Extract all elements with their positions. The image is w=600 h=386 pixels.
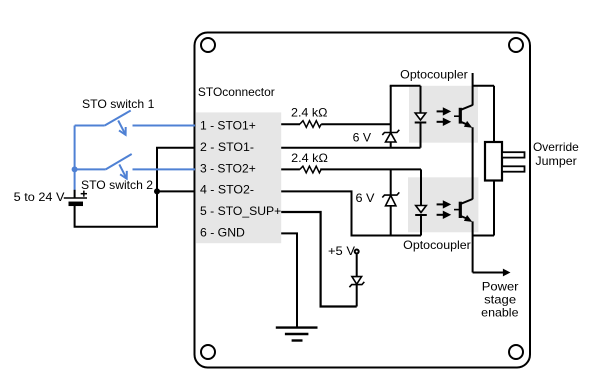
wire pin6 to ground — [281, 233, 297, 327]
svg-text:+5 V: +5 V — [328, 244, 355, 258]
battery BT1 plus sign — [81, 191, 87, 197]
wire junction to jumper rail top — [473, 85, 494, 87]
zener D2 triangle — [386, 133, 396, 142]
+5V terminal — [355, 250, 359, 254]
wire battery positive rail (blue) — [74, 126, 76, 191]
switch S2 actuation arrow — [119, 164, 127, 178]
svg-text:1 - STO1+: 1 - STO1+ — [200, 119, 256, 133]
svg-text:STO switch 1: STO switch 1 — [82, 97, 155, 111]
jumper pin lower — [502, 166, 525, 171]
LED D1 triangle — [415, 113, 426, 120]
svg-text:Jumper: Jumper — [535, 154, 576, 168]
wire resistor R2 to LED2 corner — [320, 168, 421, 170]
zener D4 cathode bar with ticks — [382, 192, 399, 197]
node blue junction — [72, 166, 78, 172]
LED D1 cathode bar — [415, 122, 427, 124]
resistor R1 — [300, 121, 321, 128]
svg-text:6 V: 6 V — [356, 191, 375, 205]
switch S1 left wire — [75, 125, 105, 127]
svg-text:STO switch 2: STO switch 2 — [81, 178, 153, 192]
transistor Q2 base lead — [454, 209, 460, 211]
wire top rail to LED1 — [390, 85, 421, 87]
switch S1 actuation arrow — [118, 121, 126, 135]
svg-text:3 - STO2+: 3 - STO2+ — [200, 161, 256, 175]
switch S2 blade — [106, 154, 132, 169]
diode D5 bottom lead — [356, 285, 358, 307]
LED D3 cathode bar — [415, 214, 427, 216]
svg-text:6 - GND: 6 - GND — [200, 226, 245, 240]
svg-text:Power: Power — [482, 279, 519, 293]
LED D1 cathode lead — [420, 123, 422, 148]
transistor Q2 emitter with arrow — [461, 215, 473, 222]
switch S2 right wire to pin 3 — [133, 168, 196, 170]
LED D3 cathode lead — [420, 215, 422, 236]
LED D3 anode lead — [420, 169, 422, 205]
svg-text:5 to 24 V: 5 to 24 V — [14, 190, 65, 204]
wire pin3 to resistor R2 — [281, 168, 300, 170]
optocoupler U1 body — [409, 86, 478, 143]
wire pin1 to resistor R1 — [281, 123, 300, 125]
mounting hole top-right — [509, 38, 523, 52]
zener D4 triangle — [386, 195, 396, 205]
svg-text:6 V: 6 V — [353, 131, 371, 145]
svg-text:Override: Override — [533, 140, 579, 154]
transistor Q1 collector — [461, 105, 473, 110]
mounting hole bottom-left — [201, 345, 215, 359]
jumper body — [485, 142, 502, 181]
svg-text:2 - STO1-: 2 - STO1- — [200, 140, 254, 154]
wire pin4 return line — [281, 191, 421, 235]
optocoupler U1 light arrows — [437, 107, 452, 126]
output arrow power stage enable — [473, 269, 511, 277]
wire pin4 stub from junction — [157, 190, 195, 192]
svg-text:2.4 kΩ: 2.4 kΩ — [291, 151, 328, 165]
diode D5 cathode bar with ticks — [349, 282, 364, 287]
optocoupler U2 light arrows — [437, 200, 452, 219]
diode D5 triangle — [352, 277, 362, 285]
wire battery negative to bottom loop — [75, 148, 195, 227]
svg-text:4 - STO2-: 4 - STO2- — [200, 183, 254, 197]
svg-text:enable: enable — [481, 306, 519, 320]
transistor Q1 emitter with arrow — [461, 121, 473, 128]
zener D2 anode lead — [390, 142, 392, 148]
optocoupler U2 body — [408, 177, 478, 232]
wire Q1 emitter down to Q2 collector — [472, 127, 474, 199]
battery BT1 negative plate — [69, 202, 84, 207]
svg-text:stage: stage — [484, 292, 516, 306]
transistor Q2 base bar — [459, 202, 462, 218]
mounting hole top-left — [201, 38, 215, 52]
device outline — [195, 33, 531, 368]
switch S2 left wire — [75, 168, 106, 170]
wire jumper rail bottom to emitter line — [473, 235, 494, 237]
LED D1 anode lead — [420, 86, 422, 113]
svg-text:STOconnector: STOconnector — [198, 85, 275, 99]
transistor Q1 base bar — [459, 108, 462, 124]
svg-text:Optocoupler: Optocoupler — [403, 238, 471, 252]
zener D4 top lead — [390, 169, 392, 195]
wire Q2 emitter down to output — [472, 221, 474, 272]
switch S1 blade — [105, 111, 131, 126]
svg-text:5 - STO_SUP+: 5 - STO_SUP+ — [200, 204, 281, 218]
LED D3 triangle — [416, 206, 427, 213]
mounting hole bottom-right — [509, 345, 523, 359]
wire pin2 return line — [281, 147, 420, 149]
resistor R2 — [300, 166, 321, 173]
zener D4 anode lead — [390, 206, 392, 236]
svg-text:2.4 kΩ: 2.4 kΩ — [291, 105, 328, 119]
zener D2 cathode bar with ticks — [382, 130, 399, 135]
diode D5 top lead — [356, 254, 358, 276]
jumper pin upper — [502, 152, 525, 157]
connector J1 body — [196, 112, 281, 243]
transistor Q1 collector wire up — [472, 73, 474, 105]
transistor Q2 collector — [461, 199, 473, 204]
transistor Q1 base lead — [454, 115, 460, 117]
switch S1 right wire to pin 1 — [133, 125, 196, 127]
battery BT1 positive lead — [74, 190, 76, 198]
wire node vertical channel 1 — [390, 86, 392, 133]
ground symbol — [276, 328, 318, 341]
wire pin5 to +5V diode — [281, 212, 357, 307]
wire jumper rail vertical — [493, 86, 495, 236]
battery BT1 positive plate — [64, 197, 87, 199]
wire resistor R1 to node — [321, 123, 391, 125]
svg-text:Optocoupler: Optocoupler — [400, 68, 468, 82]
node junction on negative rail — [154, 188, 160, 194]
